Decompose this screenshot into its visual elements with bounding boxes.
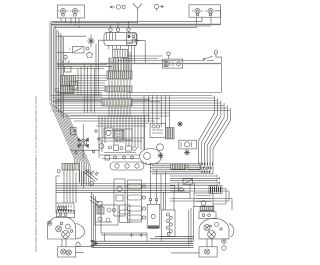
ammeter circle [157,144,164,151]
midright verticals [144,95,170,150]
comb block left A [61,76,76,86]
gauge box A [104,128,113,138]
headlamp L2 [70,8,81,16]
comb midright [166,128,175,139]
speedo pod ellipse [140,149,162,166]
wire channel horizontals [51,93,230,116]
wire left horizontals upper [57,65,112,69]
wire cluster stubs upper [78,67,81,95]
box overlap right of combs [70,81,78,89]
left border verticals [50,21,64,118]
right fan wires [150,96,231,174]
dimmer switch [203,51,218,61]
light switch starburst [70,124,100,158]
ignition switch box [150,123,166,137]
small parts row [99,144,136,160]
bus top heavy grey [51,23,221,25]
svg-text:3100-6200 SERIES WIRING DIAGRA: 3100-6200 SERIES WIRING DIAGRAM MAIN HAR… [34,95,38,252]
right bus horizontals [170,175,220,187]
fuse box [162,52,182,68]
bus mid horizontals [56,184,190,193]
wire V merge [133,4,142,24]
wire main feed grey [57,63,221,65]
junction circle small [57,170,60,173]
headlamp box left [58,5,85,18]
regulator block [113,49,128,57]
wire fan-to-boxes verticals [151,164,175,210]
wire lower-left verticals [64,170,84,203]
tail lamp R2 [205,8,216,15]
park lamp left [110,5,125,9]
bulb symbol [62,55,70,63]
wire tail lamp drops [197,11,221,27]
wire regulator feeds right [118,56,204,61]
asterisk node A [177,121,183,127]
wire headlamp drops [61,18,79,28]
bottom bus lines [91,192,194,248]
ignition coil box [194,193,213,207]
diagonal bundle [50,102,91,187]
wire switch drop right [128,57,221,92]
gauge pod oval bottom [110,162,144,170]
wire regulator drops [129,46,135,71]
cluster horizontals top [66,116,170,121]
distributor dome left [48,207,85,239]
fan symbol [87,35,95,48]
wire fan drops [96,41,99,96]
comb block left B [61,86,75,94]
stop switch lever [90,196,102,206]
junction circle [86,47,89,50]
gauge box B [115,129,122,140]
cluster verticals drop [99,116,145,158]
enclosure box lower center [101,205,147,233]
flasher tall box B [127,180,146,222]
ignition key circle [180,188,184,192]
asterisk node C [158,153,164,159]
bus top lines [51,21,221,27]
horn pedestal left [58,239,81,257]
wire feed y36 [57,35,86,37]
terminal strip column right [162,210,175,236]
gauge box C [124,129,132,140]
connector comb A [107,71,132,79]
generator dome right [199,206,234,250]
fan tick marks [200,163,213,173]
wire y52 [57,51,73,53]
battery box [101,199,160,238]
heater resistor diagonal [83,170,98,186]
wire bus stubs down [175,183,195,199]
relay box right [179,140,197,149]
right comb connector [171,164,200,170]
tick row on bundle [50,110,64,112]
lower comb left [62,164,79,171]
margin note vertical text [34,95,38,252]
park lamp right [154,4,163,11]
terminal strip lower-left [56,203,74,213]
wire cluster vertical stubs [84,65,94,113]
generator terminals [109,21,130,33]
wiper motor box [114,179,125,216]
headlamp L1 [58,8,69,16]
wire comb-to-bundle links [74,76,107,91]
wire right bottom horizontals [170,189,232,205]
wire gen right [137,41,145,64]
junction circle left [55,89,59,93]
tail lamp R1 [192,8,203,15]
connector comb C [102,99,132,106]
tail lamp box right [189,5,221,17]
small box left [65,67,72,73]
solenoid box [183,179,193,184]
generator brush legs [109,46,121,50]
pentagon connector [87,52,93,58]
harness bundle center [109,52,130,117]
flasher tall box A [120,205,130,222]
starter pedestal right [199,239,217,257]
connector comb B [105,86,132,92]
wire pedestal links [76,246,199,253]
horn relay box [69,47,85,54]
generator body [98,32,139,45]
control cluster lower-left [95,205,118,225]
dark block right [209,186,222,194]
asterisk node B [184,150,190,156]
